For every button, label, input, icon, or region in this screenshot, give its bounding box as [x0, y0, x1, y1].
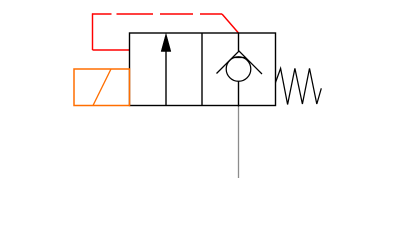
- wire: pilot bottom horizontal to valve left edge: [93, 49, 131, 51]
- pilot line (red dashed) top run: [92, 13, 239, 50]
- wire: pilot left vertical: [92, 13, 94, 50]
- solenoid diagonal stroke: [93, 69, 111, 106]
- solenoid S1 box (orange): [74, 69, 130, 106]
- wire: pilot diagonal into valve top: [222, 14, 239, 33]
- wire: pilot dash 2: [117, 13, 154, 15]
- spring (right side): [276, 68, 322, 104]
- wire: pilot dash 1: [92, 13, 112, 15]
- flow arrow head: [161, 34, 171, 52]
- check valve seat chord: [233, 57, 246, 59]
- valve body outline: [130, 33, 276, 106]
- wire: below ball to valve bottom: [238, 81, 240, 106]
- wire: pilot dash 4: [200, 13, 222, 15]
- check valve seat V: [217, 51, 263, 74]
- valve position divider: [201, 33, 203, 106]
- flow arrow stem (left square): [165, 48, 167, 106]
- wire: pilot dash 3: [160, 13, 193, 15]
- check valve pilot stub from valve top: [238, 33, 240, 51]
- wire: gray drain tail below valve: [238, 107, 240, 179]
- check valve ball (circle): [226, 57, 251, 82]
